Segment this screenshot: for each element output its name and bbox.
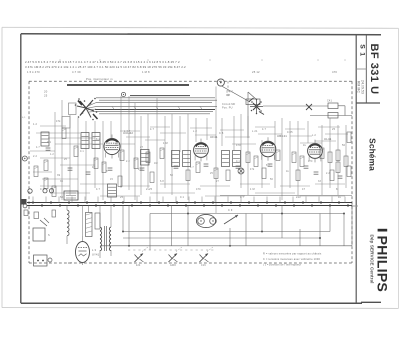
svg-text:2.2: 2.2 — [33, 155, 37, 158]
svg-text:C = tensions mesurées avec v: C = tensions mesurées avec voltmètre 100… — [263, 258, 320, 261]
mains plug box — [34, 255, 48, 266]
transformer leads — [99, 206, 101, 228]
svg-text:8.2: 8.2 — [96, 138, 100, 141]
mains plug pins — [37, 260, 39, 262]
svg-text:220: 220 — [296, 196, 301, 199]
terminal socket A — [28, 189, 32, 193]
terminal small — [22, 156, 27, 161]
tuning gang section CA — [135, 254, 144, 263]
svg-text:C 9: C 9 — [228, 209, 233, 212]
small parts row under bus — [52, 210, 56, 217]
HT bus upper — [27, 202, 352, 204]
frame top border — [21, 33, 381, 36]
wire cluster link up — [248, 92, 257, 100]
frame bottom border — [21, 302, 362, 304]
transformer core — [104, 226, 106, 251]
antenna socket — [217, 79, 224, 86]
chassis dashed top — [29, 80, 352, 82]
ribbon converge strokes — [88, 103, 96, 106]
tuning gang section CC — [200, 254, 209, 263]
small part under bus — [34, 212, 39, 219]
svg-text:GMO: GMO — [170, 265, 176, 267]
frame bottom-right extension — [361, 301, 381, 303]
svg-text:PHILIPS: PHILIPS — [374, 236, 390, 293]
scan page bottom edge — [2, 307, 399, 310]
svg-text:0.1: 0.1 — [180, 196, 184, 199]
band cable ribbon lower lines — [96, 106, 217, 108]
svg-text:L 21: L 21 — [252, 130, 258, 133]
svg-text:1 M 8: 1 M 8 — [142, 70, 150, 74]
svg-text:Schéma: Schéma — [367, 138, 377, 171]
svg-text:4.7: 4.7 — [262, 128, 266, 131]
svg-text:470: 470 — [138, 168, 143, 171]
svg-text:L 2: L 2 — [312, 134, 316, 137]
svg-text:47k: 47k — [56, 120, 61, 123]
svg-text:6.8: 6.8 — [160, 180, 164, 183]
below-bus wire y231 — [123, 231, 330, 233]
svg-text:1M: 1M — [154, 162, 158, 165]
svg-text:15: 15 — [110, 178, 114, 181]
svg-text:25: 25 — [64, 158, 68, 161]
title mid tick — [351, 205, 358, 207]
svg-text:470: 470 — [236, 144, 241, 147]
mains dropper resistor — [86, 213, 93, 237]
below-bus wire y213 — [150, 213, 344, 215]
svg-text:UY41: UY41 — [92, 253, 100, 257]
svg-text:47: 47 — [92, 166, 96, 169]
switch contact dots — [78, 98, 80, 100]
UY41 top lead from bus — [82, 206, 84, 237]
svg-text:C 8: C 8 — [219, 132, 224, 135]
HT bus lower — [27, 205, 352, 207]
svg-text:56: 56 — [270, 178, 274, 181]
svg-text:UF41: UF41 — [210, 135, 218, 139]
title block tick under S1 — [356, 68, 366, 70]
left edge part — [24, 210, 28, 216]
cluster contact dots — [251, 101, 253, 103]
svg-text:470: 470 — [196, 188, 201, 191]
svg-text:S: S — [48, 234, 50, 237]
svg-text:RM MC: RM MC — [357, 81, 361, 93]
smoothing choke coil — [67, 210, 69, 214]
svg-text:1.2: 1.2 — [33, 123, 37, 126]
svg-text:25: 25 — [210, 172, 214, 175]
svg-text:4.7 39: 4.7 39 — [72, 70, 81, 74]
svg-text:27: 27 — [140, 146, 144, 149]
below-bus wire y238 — [123, 237, 320, 239]
svg-text:Dép SERVICE Central: Dép SERVICE Central — [370, 234, 375, 283]
terminal socket E — [23, 204, 27, 208]
svg-text:S 1: S 1 — [359, 44, 366, 57]
svg-text:25 12: 25 12 — [252, 70, 260, 74]
scan page right edge — [398, 28, 400, 308]
mains input box — [33, 228, 45, 241]
svg-text:0.1: 0.1 — [236, 160, 240, 163]
svg-text:L 4.7: L 4.7 — [124, 130, 131, 133]
svg-text:8.2: 8.2 — [266, 164, 270, 167]
Philips logo bar — [378, 229, 388, 232]
svg-text:1 M: 1 M — [163, 142, 168, 145]
svg-text:C41: C41 — [327, 100, 332, 103]
svg-text:Pos. PU: Pos. PU — [222, 107, 233, 110]
frame right border — [355, 35, 357, 303]
svg-text:UBC41: UBC41 — [277, 134, 287, 138]
scan page top edge — [2, 27, 399, 28]
power transformer primary winding — [100, 227, 102, 231]
scale lamp pair — [196, 214, 215, 227]
svg-text:25: 25 — [332, 128, 336, 131]
pilot lamps — [43, 189, 47, 193]
svg-text:20: 20 — [44, 90, 48, 94]
mains switch strokes — [40, 220, 47, 226]
svg-text:2.47 5.6 8 1.5 4 7 8 2 25 3: 2.47 5.6 8 1.5 4 7 8 2 25 3 9 15 7 2 0.1… — [25, 60, 180, 64]
bus junction dots — [32, 201, 34, 203]
capacitor symbols — [46, 147, 51, 149]
ribbon hatch ticks — [112, 106, 114, 109]
wire second right horizontal — [310, 115, 352, 117]
svg-text:0,1: 0,1 — [22, 117, 26, 119]
dropper hatch — [86, 213, 92, 215]
dial scale box — [62, 117, 70, 129]
svg-text:4.7: 4.7 — [240, 196, 244, 199]
oscillator coil L5 — [141, 150, 150, 166]
ferrite antenna rod L1 — [67, 84, 189, 86]
svg-text:0.1: 0.1 — [80, 150, 84, 153]
IF transformer T1 coils — [172, 151, 180, 167]
svg-text:0.1: 0.1 — [47, 141, 51, 144]
title block bottom line — [356, 102, 380, 104]
rectifier valve V5 UY41 — [76, 242, 90, 263]
title block column divider — [365, 35, 367, 104]
svg-text:25: 25 — [44, 94, 48, 98]
power transformer secondary winding — [109, 227, 111, 231]
svg-text:2.2: 2.2 — [126, 160, 130, 163]
svg-text:4.7: 4.7 — [190, 166, 194, 169]
svg-text:Pos. interrupteur m: Pos. interrupteur m — [86, 77, 113, 81]
svg-text:UL41: UL41 — [324, 137, 332, 141]
junction blob J2 — [306, 104, 312, 110]
horizontal connector wires — [40, 125, 66, 127]
svg-text:4.7: 4.7 — [150, 128, 154, 131]
valve V4 UL41 — [308, 144, 323, 159]
svg-text:4.7: 4.7 — [36, 146, 40, 149]
plug side circle — [48, 258, 52, 262]
trimmer terminal circle — [121, 92, 125, 96]
svg-text:BF 331 U: BF 331 U — [368, 43, 380, 94]
svg-text:L 2: L 2 — [193, 130, 197, 133]
resistor R30 — [328, 103, 338, 109]
coupling box C40 — [246, 99, 260, 105]
svg-text:39: 39 — [57, 174, 61, 177]
bus left terminal block — [22, 199, 27, 205]
dropper top lead — [88, 206, 90, 213]
svg-text:424: 424 — [136, 265, 141, 267]
svg-text:470: 470 — [308, 160, 313, 163]
wire R30 to corner — [338, 105, 345, 107]
svg-text:50: 50 — [342, 144, 346, 147]
right half upper wire — [220, 195, 352, 197]
volume control block — [64, 191, 78, 200]
svg-text:0.05: 0.05 — [287, 131, 293, 134]
svg-text:33: 33 — [318, 180, 322, 183]
antenna coil pair L2 L3 — [81, 133, 89, 149]
tuning gang section CB — [169, 254, 178, 263]
svg-text:470: 470 — [332, 70, 337, 74]
valve V2 UF41 — [194, 143, 209, 158]
wire top right horizontal — [263, 105, 328, 107]
svg-text:47: 47 — [302, 188, 306, 191]
chassis dashed bottom — [29, 262, 352, 264]
svg-text:4.7: 4.7 — [96, 188, 100, 191]
svg-text:2.2: 2.2 — [326, 172, 330, 175]
svg-text:50: 50 — [170, 174, 174, 177]
valve V1 UCH42 — [104, 139, 120, 155]
svg-text:25: 25 — [120, 196, 124, 199]
svg-text:C16: C16 — [201, 265, 206, 267]
waveband switch lever strokes — [80, 101, 86, 108]
below-bus vertical drops — [122, 206, 124, 232]
valve V3 UBC41 — [260, 141, 276, 157]
second dropper — [95, 213, 100, 229]
svg-text:1 M: 1 M — [250, 188, 255, 191]
svg-text:L 3: L 3 — [92, 248, 96, 252]
svg-text:39: 39 — [60, 180, 64, 183]
svg-text:24.09.53: 24.09.53 — [361, 80, 365, 94]
resistor R31 — [328, 113, 338, 119]
phone jack symbol — [238, 168, 244, 174]
antenna lead-in wire — [222, 86, 250, 102]
svg-text:3 47k 1M 8.2 27k 470 2.2 10k: 3 47k 1M 8.2 27k 470 2.2 10k 1 2 x 25 47… — [25, 65, 186, 69]
wire from cluster down — [247, 92, 249, 138]
svg-text:2x25: 2x25 — [146, 188, 153, 191]
table tick marks — [59, 59, 61, 61]
svg-text:47k: 47k — [250, 168, 255, 171]
switch cluster SB strokes — [253, 103, 260, 110]
svg-text:50: 50 — [60, 196, 64, 199]
scan page left edge — [1, 27, 3, 307]
vertical wire bundle — [54, 112, 56, 188]
frame left border — [20, 34, 22, 303]
below-bus wire y245 — [100, 245, 352, 247]
IF transformer T2 coils — [222, 151, 230, 167]
AF coupling coil below V1 — [108, 184, 117, 197]
gang coupling dashed line — [128, 249, 215, 251]
input coil L4 — [41, 132, 49, 146]
bus vertical stubs — [32, 197, 34, 203]
resistor body outlines — [62, 128, 66, 139]
FM box dashed divider — [227, 81, 229, 97]
below-bus junction dots — [187, 213, 189, 215]
svg-text:0.8: 0.8 — [226, 94, 230, 97]
svg-text:1.2: 1.2 — [50, 153, 54, 156]
svg-text:27: 27 — [216, 180, 220, 183]
svg-text:4 7: 4 7 — [68, 263, 72, 265]
band cable ribbon upper lines — [130, 95, 190, 97]
svg-text:( ) = position de l'interru: ( ) = position de l'interrupteur — [263, 264, 301, 267]
choke leads — [66, 206, 68, 211]
svg-text:1.5 k 470: 1.5 k 470 — [27, 70, 40, 74]
switch frame box — [69, 103, 77, 115]
corner vertical — [344, 106, 346, 116]
switch lever arrow — [224, 215, 238, 224]
chassis dashed left — [28, 81, 30, 263]
svg-text:R = valeurs mesurées par rap: R = valeurs mesurées par rapport au châs… — [263, 253, 322, 256]
resistor hatch strokes — [62, 129, 65, 130]
chassis dashed right — [351, 81, 353, 263]
